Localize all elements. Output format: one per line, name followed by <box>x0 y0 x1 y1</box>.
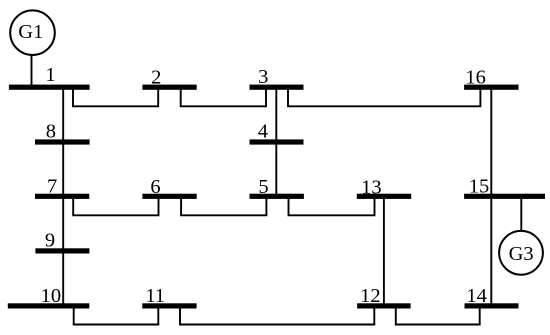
svg-text:7: 7 <box>47 176 57 198</box>
svg-text:1: 1 <box>45 64 55 86</box>
svg-text:6: 6 <box>150 176 160 198</box>
svg-text:16: 16 <box>465 67 486 89</box>
svg-text:11: 11 <box>145 285 165 307</box>
svg-text:8: 8 <box>46 121 56 143</box>
svg-text:4: 4 <box>258 121 268 143</box>
svg-text:14: 14 <box>466 285 487 307</box>
svg-text:10: 10 <box>41 285 62 307</box>
svg-text:9: 9 <box>45 230 55 252</box>
svg-text:5: 5 <box>258 176 268 198</box>
svg-text:13: 13 <box>361 176 382 198</box>
svg-text:G1: G1 <box>18 21 43 43</box>
svg-text:12: 12 <box>360 285 381 307</box>
svg-text:2: 2 <box>151 66 161 88</box>
svg-text:G3: G3 <box>509 243 534 265</box>
svg-text:3: 3 <box>258 66 268 88</box>
svg-text:15: 15 <box>469 176 490 198</box>
